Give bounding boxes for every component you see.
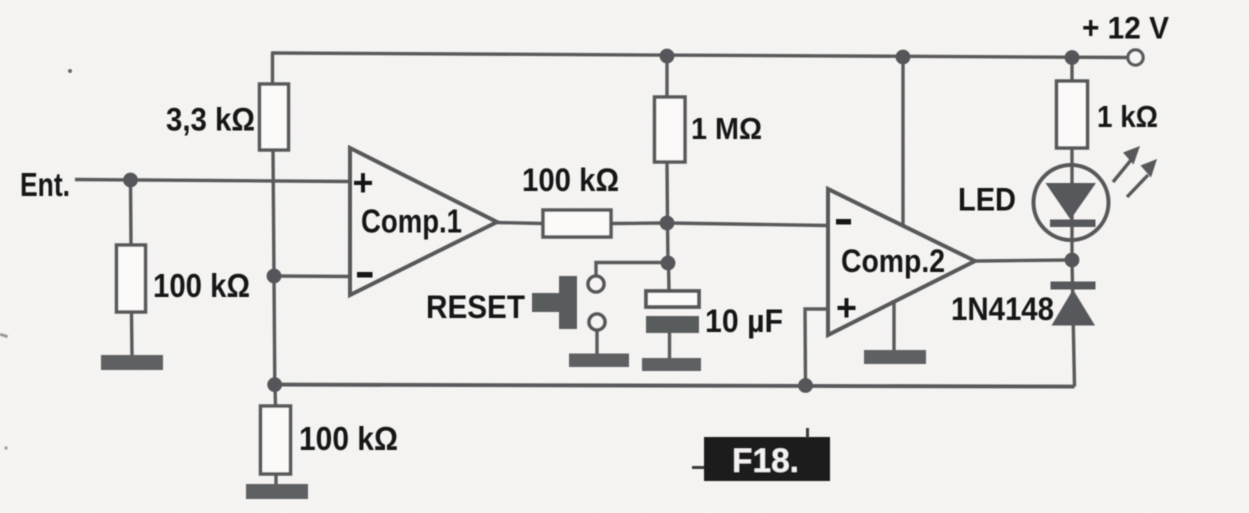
wire R100k bottom to ground xyxy=(274,475,277,485)
ground for RESET xyxy=(569,354,629,368)
junction dot node B xyxy=(661,256,676,271)
svg-text:100 kΩ: 100 kΩ xyxy=(522,162,619,198)
svg-text:10 µF: 10 µF xyxy=(705,303,783,339)
wire Comp.2 gnd pin down xyxy=(892,300,895,351)
ground for R100k bottom xyxy=(246,484,308,499)
switch RESET contact top xyxy=(588,276,604,292)
wire bottom feedback rail xyxy=(275,385,1075,387)
svg-text:+: + xyxy=(836,288,857,330)
resistor 1k xyxy=(1057,81,1088,148)
svg-text:Comp.2: Comp.2 xyxy=(841,243,945,279)
junction dot minus node xyxy=(267,269,282,284)
wire top rail down to R 1k xyxy=(1070,58,1073,83)
junction dot bottom node left xyxy=(267,377,282,392)
svg-text:Ent.: Ent. xyxy=(20,166,70,203)
scan speck top left xyxy=(68,69,72,73)
wire reset bottom contact to ground xyxy=(595,329,598,356)
svg-text:RESET: RESET xyxy=(426,289,525,325)
svg-text:100 kΩ: 100 kΩ xyxy=(153,267,250,304)
wire node B left and down to reset top contact xyxy=(596,263,668,278)
wire R100k left bottom to ground xyxy=(130,313,134,356)
svg-text:1 MΩ: 1 MΩ xyxy=(691,111,762,146)
wire junction Ent down to R100k left xyxy=(129,180,133,246)
ground for R100k left xyxy=(101,355,163,370)
svg-text:F18.: F18. xyxy=(732,442,799,480)
scan speck left margin xyxy=(0,333,8,338)
wire minus node to Comp.1 minus input xyxy=(274,274,350,278)
svg-text:Comp.1: Comp.1 xyxy=(361,203,462,240)
junction dot feedback node xyxy=(798,378,813,393)
wire node A to Comp.2 minus input xyxy=(668,223,829,226)
tick mark above F18 xyxy=(806,428,809,438)
svg-text:100 kΩ: 100 kΩ xyxy=(299,420,398,457)
op-amp Comp.2 xyxy=(828,189,975,335)
wire Comp.1 output to R100k horizontal xyxy=(496,223,543,224)
capacitor 10uF plate bottom xyxy=(646,316,699,333)
diode 1N4148 cathode bar xyxy=(1051,282,1096,290)
svg-text:LED: LED xyxy=(958,182,1016,218)
wire Comp.2 output to node C xyxy=(975,260,1072,261)
tick mark left of F18 xyxy=(692,466,704,469)
LED circle xyxy=(1034,165,1109,240)
LED triangle xyxy=(1046,183,1097,220)
junction dot Ent node xyxy=(123,173,138,188)
ground for Comp.2 xyxy=(864,350,926,364)
wire node A down to node B xyxy=(666,223,670,263)
wire node C through diode to bottom rail corner xyxy=(1072,260,1075,387)
wire top rail down to R 1M xyxy=(665,56,668,98)
svg-text:+ 12 V: + 12 V xyxy=(1082,10,1169,46)
op-amp Comp.1 xyxy=(350,148,497,295)
junction dot top rail at Comp.2 supply xyxy=(896,50,911,65)
LED cathode bar xyxy=(1050,220,1096,228)
junction dot node C xyxy=(1065,253,1080,268)
wire R1k bottom through LED to node C xyxy=(1070,148,1073,260)
switch RESET contact bottom xyxy=(589,314,605,330)
ground for capacitor xyxy=(642,358,701,371)
junction dot top rail at 1M xyxy=(660,49,675,64)
wire +12V top rail xyxy=(271,53,1128,58)
svg-text:1 kΩ: 1 kΩ xyxy=(1097,99,1158,134)
resistor 100k left xyxy=(117,245,146,312)
figure label box F18. xyxy=(704,437,830,481)
capacitor 10uF plate top xyxy=(646,291,699,307)
resistor 3,3 kOhm xyxy=(260,84,289,150)
wire R3.3k bottom lead down through Ent crossing to minus node xyxy=(273,150,274,276)
wire R1M bottom to node A xyxy=(665,162,669,223)
wire top rail corner down to R 3.3k xyxy=(271,53,274,85)
wire R100k horizontal to node A xyxy=(611,221,667,225)
LED arrow 1 xyxy=(1113,146,1140,182)
resistor 100k horizontal xyxy=(543,210,611,237)
label Comp.1 minus xyxy=(357,272,373,278)
wire top rail down to Comp.2 Vplus xyxy=(901,57,904,226)
resistor 100k bottom xyxy=(261,406,291,474)
switch RESET actuator xyxy=(532,276,577,329)
LED arrow 2 xyxy=(1127,159,1157,197)
junction dot top rail at 1k xyxy=(1065,50,1080,65)
scan speck left lower xyxy=(4,446,7,449)
wire node B down to capacitor xyxy=(667,263,671,291)
wire bottom node down into R100k bottom xyxy=(273,385,277,408)
junction dot node A xyxy=(660,216,675,231)
wire Ent. input to Comp.1 plus xyxy=(75,180,350,182)
diode 1N4148 triangle xyxy=(1052,290,1096,326)
label Comp.2 minus xyxy=(836,219,851,225)
wire Comp.2 plus input feedback xyxy=(805,309,828,385)
terminal +12V open circle xyxy=(1128,50,1143,65)
svg-text:1N4148: 1N4148 xyxy=(951,291,1054,327)
resistor 1M xyxy=(655,97,686,162)
wire minus node down to bottom node xyxy=(272,276,276,385)
svg-text:+: + xyxy=(353,163,374,205)
wire capacitor bottom plate to ground xyxy=(668,333,671,359)
svg-text:3,3 kΩ: 3,3 kΩ xyxy=(166,102,255,138)
